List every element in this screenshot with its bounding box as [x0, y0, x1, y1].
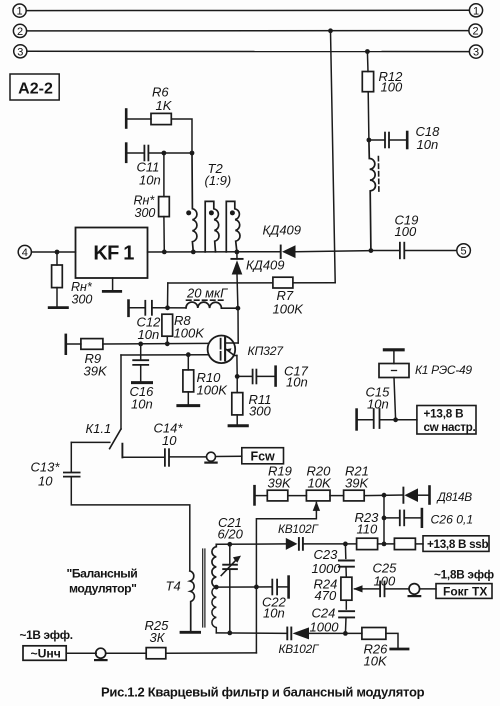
svg-text:20 мкГ: 20 мкГ: [186, 285, 228, 300]
node 1 (right terminal circle): [469, 4, 482, 18]
wire varicap to R26: [309, 632, 362, 634]
varicap KV102G (lower): [287, 627, 309, 639]
wire to R6: [127, 118, 151, 120]
wire to C11: [127, 152, 144, 154]
junction C23: [343, 542, 348, 547]
relay coil K1 RES-49: [379, 364, 409, 378]
wire C14 to screen terminal: [169, 456, 206, 458]
resistor R10: [183, 370, 194, 392]
svg-text:1K: 1K: [156, 98, 173, 113]
junction relay/C15: [393, 417, 398, 422]
label C22 10n: [262, 595, 287, 621]
capacitor C16: [133, 360, 148, 365]
wire drain up: [237, 308, 239, 343]
svg-text:470: 470: [315, 588, 337, 603]
svg-text:КВ102Г: КВ102Г: [278, 522, 320, 536]
label C14* 10: [154, 421, 184, 448]
inductor core (dashed): [187, 299, 224, 301]
phase dot winding b: [209, 210, 214, 215]
capacitor C17: [253, 370, 257, 384]
terminal bar C15: [355, 410, 358, 430]
resistor R26: [362, 628, 386, 640]
svg-text:+13,8 В ssb: +13,8 В ssb: [427, 538, 489, 551]
capacitor C26: [400, 511, 404, 526]
junction C16: [138, 342, 143, 347]
junction C26: [382, 516, 387, 521]
wire KF1 output rail / T2 bottom rail: [148, 251, 281, 253]
node 2 (right terminal circle): [469, 24, 482, 38]
resistor R11: [232, 393, 243, 415]
capacitor C14*: [165, 449, 169, 466]
resistor R23: [357, 538, 378, 549]
junction rail/T2a: [191, 250, 196, 255]
screen terminal (circle): [205, 452, 216, 462]
capacitor C19: [400, 243, 404, 259]
junction rail/Rn: [162, 250, 167, 255]
svg-text:К1.1: К1.1: [86, 421, 112, 436]
junction C11/Rn: [162, 151, 167, 156]
capacitor C24: [339, 611, 354, 617]
svg-text:10n: 10n: [286, 374, 308, 389]
node 3 (left terminal circle): [14, 45, 27, 59]
wire wiper R20: [256, 511, 316, 653]
wire diode to drain vertical: [236, 275, 239, 309]
wire T4 top to varicap: [216, 543, 285, 545]
label C16 10n: [130, 384, 155, 412]
svg-text:"Балансный: "Балансный: [67, 566, 138, 580]
svg-text:6/20: 6/20: [218, 526, 244, 541]
capacitor C15: [374, 409, 380, 428]
wire T4 bottom rail: [216, 632, 286, 635]
svg-text:300: 300: [72, 292, 93, 306]
screen terminal (circle, Fokg): [409, 584, 421, 596]
svg-text:10n: 10n: [263, 605, 285, 620]
wire R10 drop: [187, 355, 189, 370]
svg-text:2: 2: [472, 26, 478, 38]
label R21 39K: [345, 463, 369, 490]
transistor VT KP327 (dual-gate MOSFET): [208, 336, 239, 364]
label Rn* 300 (upper): [134, 193, 156, 220]
junction C19: [369, 248, 374, 253]
svg-text:100: 100: [395, 224, 417, 239]
zener D814V: [403, 487, 429, 504]
svg-text:3: 3: [17, 46, 23, 58]
svg-text:3: 3: [473, 47, 479, 59]
wire C17 to terminal: [257, 375, 275, 377]
wire gate2: [121, 354, 208, 356]
svg-text:КД409: КД409: [246, 258, 285, 273]
trimmer capacitor C21: [221, 544, 241, 633]
wire R6 to corner: [171, 119, 192, 153]
svg-text:A2-2: A2-2: [18, 81, 53, 98]
svg-text:300: 300: [249, 403, 271, 418]
label C23 1000: [312, 547, 342, 576]
wire C24 to bottom rail: [344, 618, 347, 634]
transformer T2 winding b: [205, 201, 219, 252]
ground (R10): [178, 404, 199, 407]
svg-text:100K: 100K: [273, 301, 305, 316]
label R8 100K: [174, 313, 206, 341]
label C21 6/20: [218, 515, 244, 542]
junction inductor left: [165, 305, 170, 310]
svg-text:Д814В: Д814В: [436, 490, 473, 504]
svg-text:39K: 39K: [268, 476, 292, 491]
junction center tap: [214, 585, 219, 590]
wire to C17: [237, 375, 252, 377]
wire diode to C19 junction: [296, 251, 371, 252]
wire to C15: [357, 419, 373, 421]
wire C22 to terminal: [278, 586, 288, 588]
label Balansny modulyator: [67, 566, 138, 595]
node 4 (terminal circle): [18, 245, 31, 259]
label R6 1K: [152, 84, 173, 113]
wire C25 to screen terminal: [385, 588, 409, 590]
wire R23 to R22: [378, 543, 395, 545]
label R7 100K: [273, 288, 305, 316]
wire R7 branch: [168, 282, 335, 284]
label R26 10K: [364, 641, 389, 668]
potentiometer R20: [306, 490, 330, 511]
box Fcw: [242, 448, 284, 464]
svg-text:~Uнч: ~Uнч: [31, 647, 61, 661]
label R10 100K: [197, 370, 229, 398]
wire R22 to ssb box: [415, 543, 423, 545]
wire KF1 to ground: [112, 278, 114, 290]
svg-text:10n: 10n: [139, 172, 161, 187]
terminal bar C18: [406, 132, 409, 148]
svg-text:cw настр.: cw настр.: [424, 421, 476, 434]
wire R24 to C24: [345, 600, 347, 609]
node 3 (right terminal circle): [469, 45, 482, 59]
diode KD409 (vertical): [231, 259, 242, 275]
wire R20 to R21: [330, 495, 344, 497]
svg-text:КД409: КД409: [263, 222, 302, 237]
svg-text:Fcw: Fcw: [250, 450, 275, 464]
wire vertical bias rail: [383, 495, 385, 544]
wire Rn lower to ground: [56, 288, 58, 307]
inductor L1 (tuned coil): [369, 140, 376, 251]
terminal bar (R9 input): [65, 335, 68, 354]
resistor R12: [362, 72, 373, 92]
node 1 (left terminal circle): [13, 4, 26, 18]
resistor R21: [344, 490, 365, 501]
box +13,8 V ssb: [423, 536, 489, 552]
svg-text:1: 1: [17, 6, 23, 18]
svg-text:Рис.1.2 Кварцевый фильтр и бал: Рис.1.2 Кварцевый фильтр и балансный мод…: [101, 685, 425, 700]
wire C12 to inductor: [152, 307, 186, 309]
svg-text:100K: 100K: [197, 383, 229, 398]
svg-text:10: 10: [162, 433, 177, 448]
wire C23 to R24: [345, 567, 347, 577]
junction inductor right / drain: [236, 306, 241, 311]
svg-text:10n: 10n: [138, 327, 160, 342]
switch K1.1 arm: [110, 429, 121, 449]
screen terminal (circle, Unch): [95, 648, 106, 660]
wire C18 branch: [369, 139, 384, 141]
svg-text:Fокг ТХ: Fокг ТХ: [443, 584, 487, 598]
svg-text:+13,8 В: +13,8 В: [424, 407, 464, 420]
wire wiper R24 to C25: [362, 588, 379, 590]
svg-text:4: 4: [22, 247, 28, 259]
terminal bar (R19 input): [253, 486, 256, 504]
label C24 1000: [310, 605, 340, 634]
wire Rn to KF1 output rail: [163, 217, 165, 252]
crystal filter KF1: [76, 228, 148, 279]
svg-text:1000: 1000: [310, 620, 340, 635]
switch contact bar: [121, 444, 123, 458]
ground (Rn lower): [49, 306, 67, 309]
svg-text:10n: 10n: [417, 137, 439, 152]
wire to C12: [129, 307, 145, 309]
wire C13 down and right to T4: [71, 477, 190, 571]
label R20 10K: [307, 463, 332, 490]
wire Unch to screen: [66, 652, 96, 654]
junction C21 bottom: [227, 631, 232, 636]
wire source down: [236, 356, 238, 377]
wire center tap to C22: [216, 586, 271, 588]
wire C15 to junction: [380, 419, 417, 421]
wire Rn drop: [163, 153, 165, 197]
capacitor C12: [145, 301, 152, 315]
label C12 10n: [137, 314, 162, 342]
junction on bus 2: [328, 28, 333, 33]
terminal bar C17: [274, 367, 277, 386]
wire bus 1: [26, 9, 469, 11]
svg-text:модулятор": модулятор": [69, 581, 136, 595]
wire drop from bus 3 to R12: [366, 52, 369, 72]
transformer T2 winding c: [226, 201, 240, 252]
svg-text:3К: 3К: [150, 630, 166, 645]
resistor R9: [81, 339, 103, 350]
node 5 (terminal circle): [457, 244, 471, 258]
varicap KV102G (upper): [286, 538, 303, 550]
svg-text:10n: 10n: [131, 397, 153, 412]
phase dot winding c: [230, 210, 235, 215]
junction C24 bottom: [343, 631, 348, 636]
svg-text:2: 2: [17, 26, 23, 38]
wire bus 2: [27, 30, 469, 32]
junction R8: [165, 341, 170, 346]
svg-text:39K: 39K: [84, 364, 108, 379]
box Fokg TX: [436, 584, 492, 599]
wire R8 to gate1 wire: [166, 336, 168, 344]
wire C19 to node 5: [405, 250, 457, 252]
junction C21 top: [227, 542, 232, 547]
wire C18 to terminal: [389, 139, 406, 141]
resistor Rn* 300 (lower): [52, 265, 63, 288]
terminal bar C22: [287, 577, 290, 598]
wire bar to relay: [393, 351, 395, 363]
svg-text:C24: C24: [312, 605, 336, 620]
svg-text:~1В эфф.: ~1В эфф.: [20, 628, 73, 642]
svg-text:110: 110: [357, 522, 378, 537]
wire to R19: [255, 495, 267, 497]
wire node4 to KF1: [32, 251, 76, 253]
terminal bar (R6 input): [125, 110, 128, 128]
junction wiper rail: [254, 585, 259, 590]
svg-text:~1,8В эфф: ~1,8В эфф: [434, 568, 494, 581]
capacitor C25: [380, 582, 384, 597]
wire C23 drop: [344, 544, 346, 559]
wire to C26: [384, 517, 399, 519]
wire R11 to ground: [236, 415, 238, 425]
svg-text:10K: 10K: [364, 654, 388, 669]
wire C16 drop: [140, 344, 142, 360]
T4 core lines: [203, 549, 205, 627]
resistor R7: [273, 277, 293, 288]
label Rn* 300 (lower): [71, 280, 93, 307]
ground (T4 primary): [181, 631, 200, 634]
wire R10 to ground: [187, 392, 189, 404]
capacitor C23: [339, 561, 354, 567]
label R25 3K: [145, 618, 170, 645]
wire R19 to R20: [288, 495, 307, 497]
wire drop from bus 2 to R7 corner: [331, 31, 336, 283]
transformer T4 winding 2 upper: [212, 544, 216, 587]
label C25 100: [373, 561, 398, 589]
junction R10: [186, 352, 191, 357]
wire Rn lower drop: [56, 252, 58, 265]
wire R21 to zener: [364, 494, 403, 497]
wire C26 to terminal: [405, 517, 421, 519]
wire C13 riser: [70, 442, 72, 471]
ground (R26): [391, 648, 408, 651]
junction on bus 3: [365, 49, 370, 54]
diode KD409 (horizontal): [281, 245, 296, 258]
switch K1.1 vertical: [120, 355, 122, 429]
resistor R19: [267, 490, 288, 501]
svg-text:C23: C23: [314, 547, 339, 562]
wire gate1: [103, 342, 208, 345]
capacitor C22: [272, 580, 277, 595]
potentiometer R24: [341, 577, 363, 600]
label R11 300: [249, 392, 272, 418]
svg-text:100: 100: [381, 80, 403, 95]
label R23 110: [355, 510, 380, 537]
wire R11 drop: [236, 376, 238, 392]
svg-text:10K: 10K: [308, 476, 332, 491]
transformer T4 winding 1: [190, 571, 195, 631]
wire C11 to R6 drop: [149, 152, 192, 154]
resistor R22: [394, 538, 415, 549]
svg-text:КВ102Г: КВ102Г: [279, 642, 321, 656]
wire contact to C14: [122, 456, 164, 458]
terminal bar (C11 input): [125, 144, 128, 162]
wire R12 to C18 junction: [367, 92, 370, 140]
resistor R6: [151, 113, 171, 124]
transformer T4 winding 2 lower: [212, 587, 216, 633]
box +13,8 V cw nastr: [417, 406, 476, 435]
wire R7 corner down to inductor wire: [167, 283, 169, 308]
junction rail/T2c: [235, 250, 240, 255]
svg-text:10: 10: [38, 474, 53, 489]
svg-text:C13*: C13*: [31, 459, 61, 474]
svg-text:39K: 39K: [345, 476, 369, 491]
coil core (dashed): [377, 157, 380, 193]
wire screen to R25: [106, 652, 146, 654]
wire varicap to R23: [303, 543, 356, 545]
wire left throw: [71, 441, 110, 443]
ground (R11): [229, 424, 247, 427]
label R9 39K: [84, 351, 108, 379]
junction C18 tap: [367, 138, 372, 143]
wire C16 to ground: [140, 365, 142, 381]
junction source: [235, 374, 240, 379]
resistor R8: [162, 314, 173, 336]
label C18 10n: [416, 124, 441, 152]
ground (C16): [133, 381, 152, 384]
capacitor C13*: [64, 473, 80, 477]
transformer T2 winding a: [192, 153, 197, 252]
terminal bar (C12 input): [127, 301, 130, 316]
phase dot winding a: [186, 210, 191, 215]
svg-text:100K: 100K: [174, 325, 206, 340]
label R12 100: [379, 69, 404, 95]
inductor 20uH: [186, 302, 238, 308]
junction bias rail bottom: [382, 542, 387, 547]
label C13* 10: [31, 459, 61, 488]
svg-text:KF 1: KF 1: [93, 242, 134, 264]
wire screen to Fcw box: [216, 455, 242, 457]
wire R25 to center tap rail: [166, 652, 257, 654]
wire relay to C15 junction: [394, 378, 396, 420]
label C19 100: [395, 213, 419, 239]
svg-text:КП327: КП327: [248, 344, 285, 358]
wire screen to Fokg box: [420, 588, 436, 590]
label R19 39K: [268, 463, 292, 490]
capacitor C11: [144, 146, 148, 161]
wire R26 to ground: [386, 633, 398, 647]
resistor Rn* 300 (upper): [159, 197, 170, 217]
box A2-2: [10, 74, 59, 100]
svg-text:Т4: Т4: [166, 579, 181, 594]
svg-text:1: 1: [473, 5, 479, 17]
junction R6/T2: [190, 151, 195, 156]
label C15 10n: [366, 385, 391, 412]
box ~Unch: [23, 646, 66, 661]
junction zener line: [382, 493, 387, 498]
wire to C19: [371, 250, 399, 252]
ground (KF1): [103, 290, 120, 293]
svg-text:5: 5: [461, 246, 467, 258]
wire to R9: [66, 343, 81, 345]
svg-text:К1 РЭС-49: К1 РЭС-49: [415, 363, 472, 377]
junction Rn lower: [55, 250, 60, 255]
terminal bar C26: [421, 509, 424, 527]
chassis bar above relay: [384, 348, 403, 351]
svg-text:1000: 1000: [312, 561, 342, 576]
capacitor C18: [385, 133, 389, 148]
svg-text:100: 100: [374, 573, 396, 588]
svg-text:300: 300: [135, 206, 156, 220]
node 2 (left terminal circle): [13, 24, 26, 38]
svg-text:10n: 10n: [367, 397, 389, 412]
svg-text:C26 0,1: C26 0,1: [431, 512, 474, 526]
label C11 10n: [137, 160, 161, 188]
resistor R25: [146, 648, 166, 659]
label C17 10n: [284, 364, 309, 390]
wire T2c junction to diode: [236, 252, 238, 259]
label T2 (1:9): [205, 161, 232, 188]
svg-text:(1:9): (1:9): [205, 173, 232, 188]
wire bus 3: [27, 50, 469, 52]
label R24 470: [314, 577, 338, 604]
